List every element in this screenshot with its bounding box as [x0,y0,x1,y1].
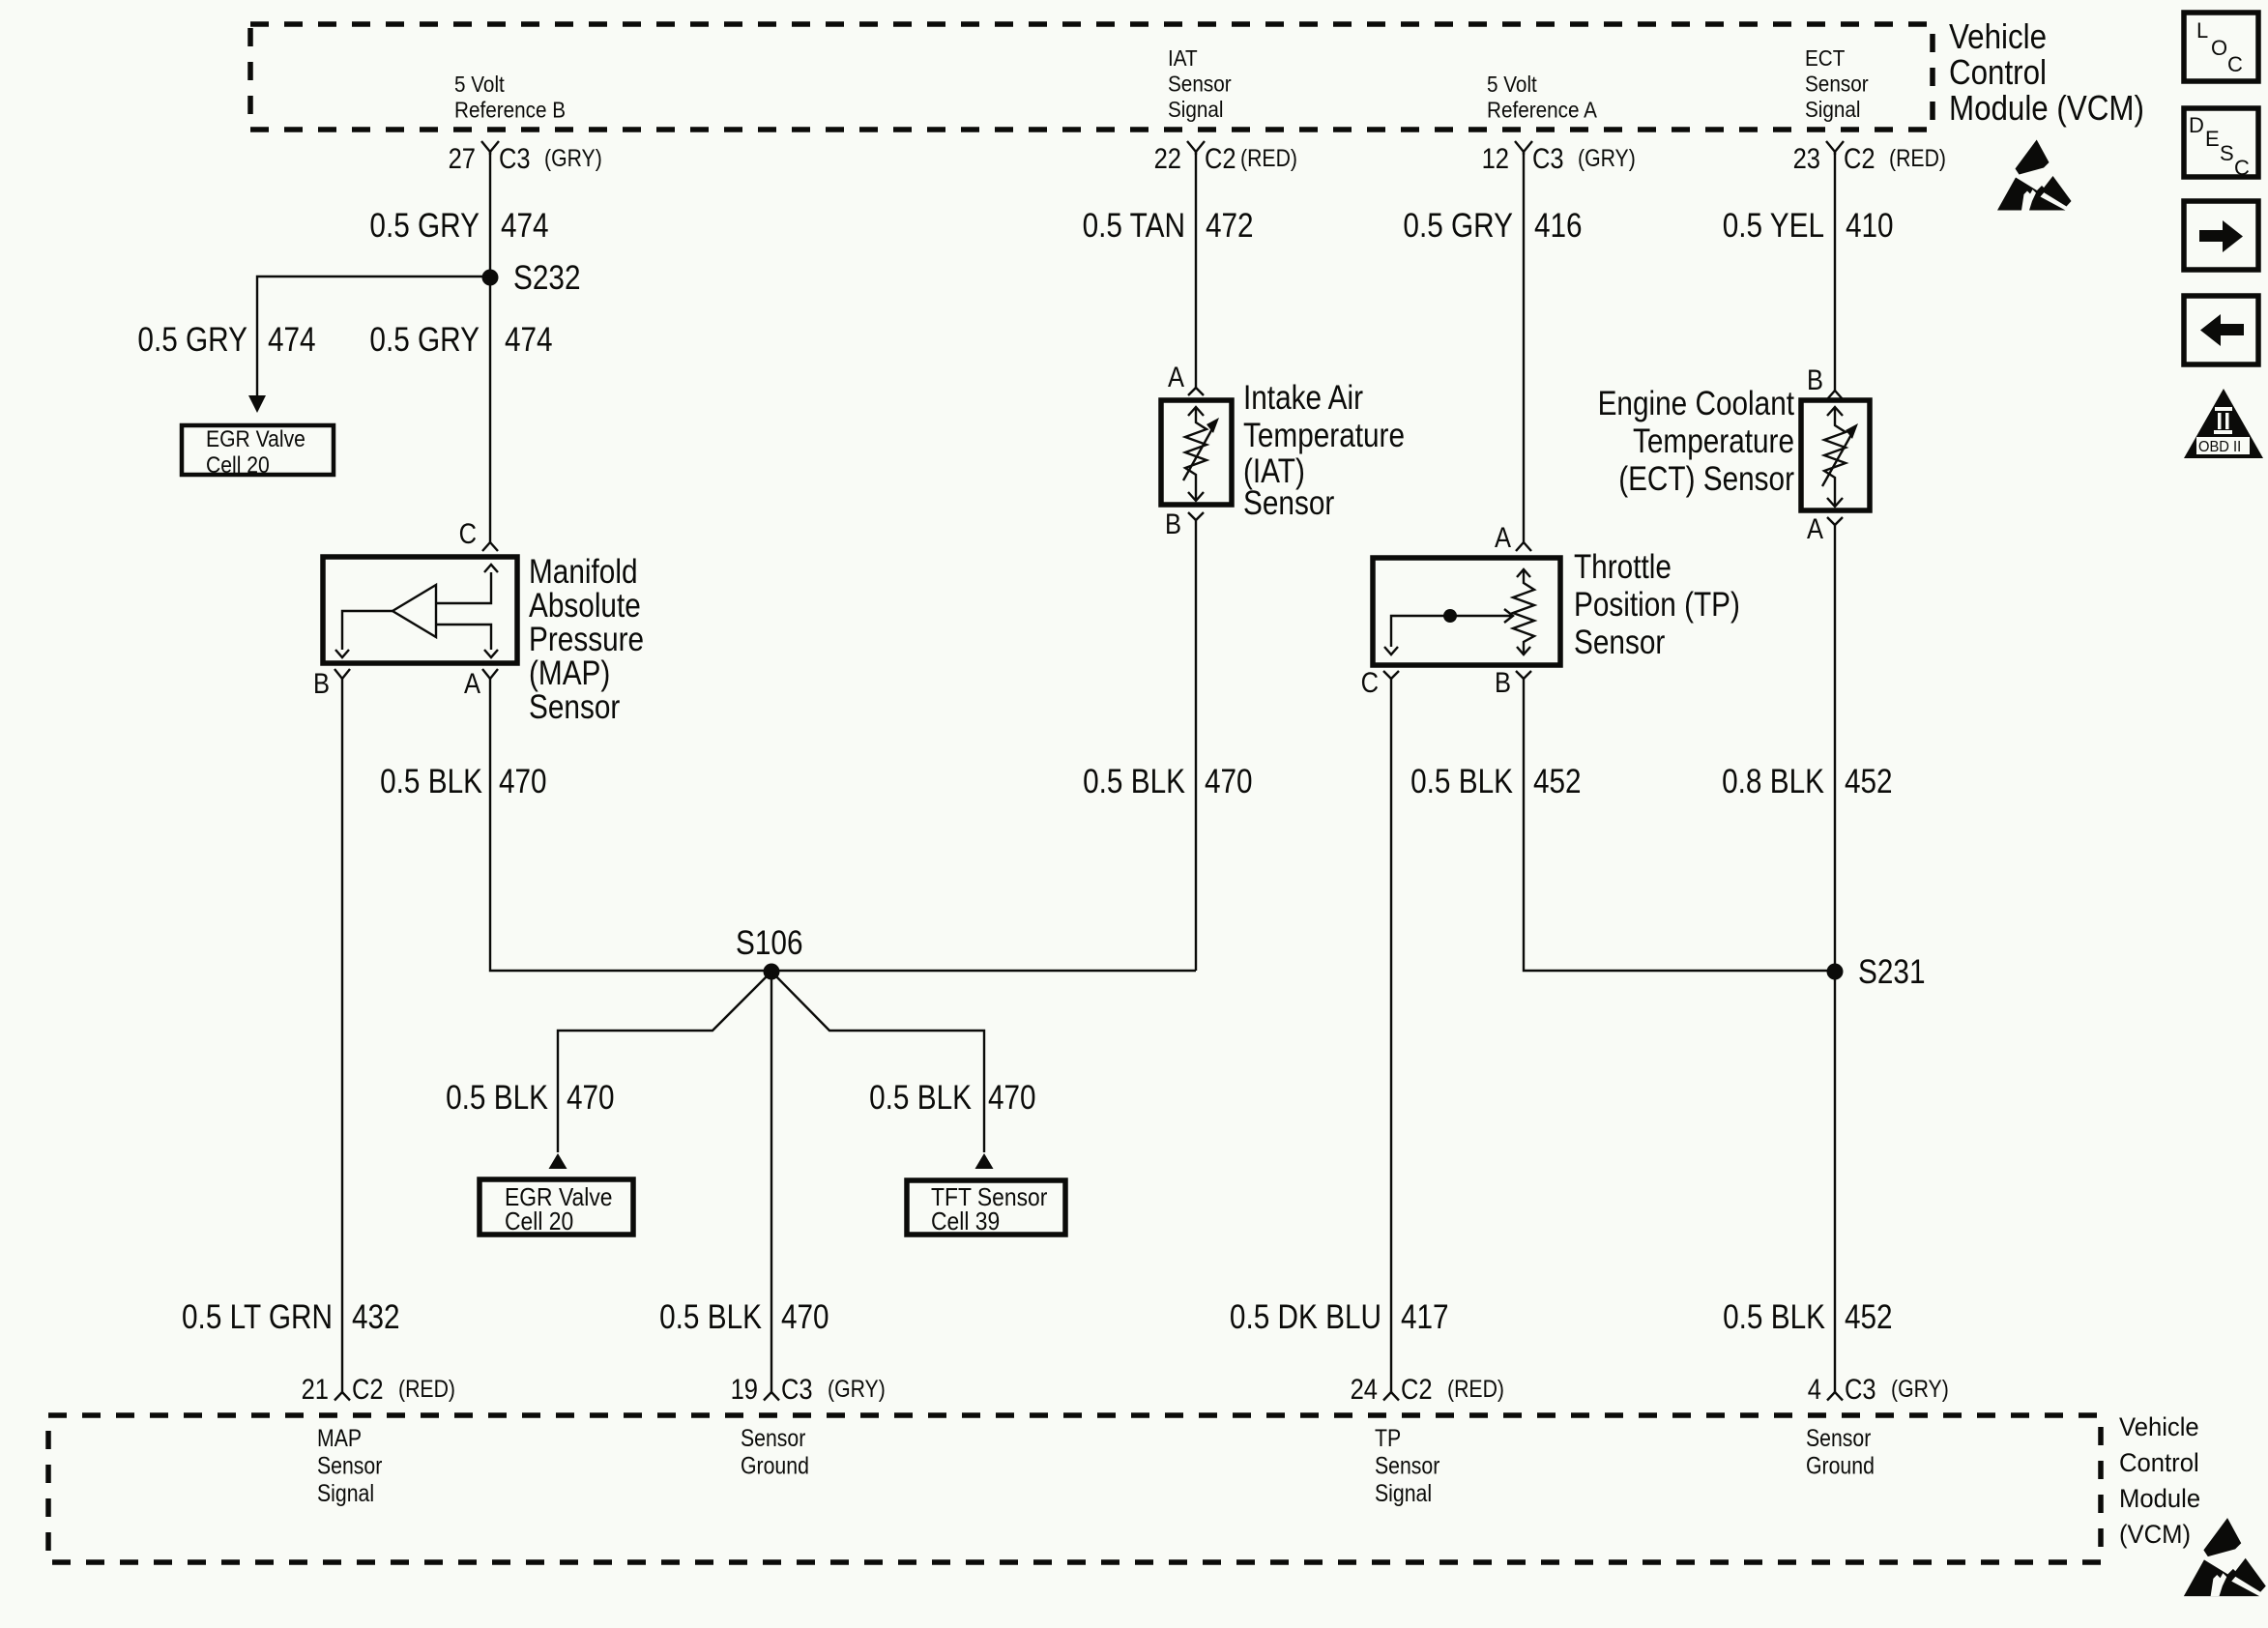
svg-text:5 Volt: 5 Volt [1487,72,1537,97]
arrow to EGR Valve box (lower) [549,1153,567,1169]
svg-text:27: 27 [449,143,476,175]
terminal B of IAT sensor [1165,509,1204,540]
svg-text:C: C [459,518,477,550]
splice S106 [736,924,803,980]
svg-text:416: 416 [1534,207,1583,245]
wire TP B down to S231 [1524,679,1835,971]
svg-text:O: O [2211,36,2227,60]
svg-text:A: A [1807,513,1823,545]
svg-text:Sensor: Sensor [1806,1425,1871,1452]
svg-text:B: B [1807,364,1823,396]
svg-text:432: 432 [352,1298,400,1336]
LOC box icon [2184,13,2258,81]
svg-text:C2: C2 [1844,143,1875,175]
label 0.5 BLK 470 EGR branch [446,1079,615,1117]
svg-text:0.5 BLK: 0.5 BLK [659,1298,762,1336]
TP sensor box [1373,558,1560,665]
svg-text:0.5 LT GRN: 0.5 LT GRN [182,1298,333,1336]
svg-text:Reference A: Reference A [1487,98,1597,123]
svg-text:0.5 DK BLU: 0.5 DK BLU [1230,1298,1381,1336]
svg-text:0.5 GRY: 0.5 GRY [369,207,480,245]
label TP Sensor Signal [1375,1425,1439,1507]
svg-text:Ground: Ground [1806,1453,1875,1480]
OBD II triangle icon [2184,389,2263,458]
wire MAP A to S106 ground bus [490,679,1196,971]
svg-text:C3: C3 [1845,1374,1876,1406]
svg-text:4: 4 [1808,1374,1821,1406]
svg-text:0.5 BLK: 0.5 BLK [869,1079,972,1117]
svg-text:Control: Control [1949,52,2047,92]
pin 4 C3 (GRY) connector [1808,1374,1949,1406]
svg-text:0.8 BLK: 0.8 BLK [1722,763,1824,800]
arrow into EGR Valve box [248,395,266,413]
terminal B of MAP sensor [313,668,350,700]
svg-text:L: L [2196,18,2208,43]
label Intake Air Temperature (IAT) Sensor [1243,379,1405,522]
svg-text:(RED): (RED) [1889,145,1946,172]
label 0.5 BLK 470 TFT branch [869,1079,1036,1117]
svg-text:Engine Coolant: Engine Coolant [1598,385,1795,422]
right arrow box icon [2184,201,2258,270]
svg-text:ECT: ECT [1805,45,1845,71]
wire ECT A down through S231 to pin 4 [1834,525,1836,1392]
svg-text:(RED): (RED) [398,1376,455,1403]
svg-text:470: 470 [499,763,547,800]
svg-text:E: E [2205,127,2220,151]
svg-text:Pressure: Pressure [529,621,644,658]
thermistor symbol inside IAT sensor [1183,407,1219,501]
pin 19 C3 (GRY) connector [731,1374,886,1406]
svg-text:417: 417 [1401,1298,1449,1336]
svg-text:Sensor: Sensor [1574,624,1666,661]
label 0.5 GRY 474 branch left [137,321,315,359]
label 0.5 YEL 410 [1723,207,1894,245]
svg-text:0.5 BLK: 0.5 BLK [1083,763,1185,800]
svg-text:Signal: Signal [1168,97,1224,122]
pin 22 C2 (RED) connector [1154,141,1297,175]
svg-text:Sensor: Sensor [1243,484,1335,522]
label Engine Coolant Temperature (ECT) Sensor [1598,385,1795,498]
wire pin23 down to ECT B [1834,152,1836,391]
svg-text:470: 470 [567,1079,615,1117]
terminal B of TP sensor [1495,667,1531,699]
svg-text:Control: Control [2119,1448,2199,1477]
label 0.5 BLK 470 under MAP [380,763,547,800]
svg-text:0.5 BLK: 0.5 BLK [380,763,482,800]
splice S232 [482,259,581,297]
svg-text:A: A [1495,522,1511,554]
svg-text:Sensor: Sensor [529,688,621,726]
svg-text:452: 452 [1533,763,1582,800]
label Vehicle Control Module (VCM) top [1949,16,2144,128]
svg-text:24: 24 [1351,1374,1378,1406]
svg-text:470: 470 [1205,763,1253,800]
svg-text:Cell 39: Cell 39 [931,1206,1000,1236]
wire branch S232 to EGR valve [257,276,490,395]
svg-text:474: 474 [505,321,553,359]
svg-text:0.5 BLK: 0.5 BLK [446,1079,548,1117]
svg-text:A: A [464,668,480,700]
left arrow box icon [2184,296,2258,364]
wire pin12 down to TP A [1523,152,1525,542]
svg-text:Sensor: Sensor [317,1453,382,1480]
pin 27 C3 (GRY) connector [449,141,602,175]
svg-text:0.5 YEL: 0.5 YEL [1723,207,1824,245]
svg-text:474: 474 [501,207,549,245]
wire TP C down to pin 24 [1390,679,1392,1392]
label 0.5 BLK 470 bottom [659,1298,829,1336]
svg-text:C2: C2 [1205,143,1236,175]
MAP sensor box [323,557,517,663]
svg-text:C: C [1361,667,1379,699]
svg-text:Cell 20: Cell 20 [206,452,270,479]
EGR Valve Cell 20 box (lower) [480,1179,633,1236]
svg-text:Signal: Signal [1805,97,1861,122]
TFT Sensor Cell 39 box [907,1180,1065,1236]
svg-text:472: 472 [1206,207,1254,245]
svg-text:0.5 BLK: 0.5 BLK [1410,763,1513,800]
pin 24 C2 (RED) connector [1351,1374,1504,1406]
label Sensor Ground right [1806,1425,1875,1480]
svg-text:(RED): (RED) [1447,1376,1504,1403]
svg-text:S: S [2220,141,2234,165]
svg-text:5 Volt: 5 Volt [454,72,505,97]
wire 474 pin27 to S232 to MAP C [489,152,491,542]
IAT sensor box [1161,400,1232,505]
svg-text:A: A [1168,362,1184,393]
svg-text:D: D [2189,113,2204,137]
svg-text:Temperature: Temperature [1243,417,1405,454]
svg-text:OBD II: OBD II [2198,439,2241,455]
svg-text:Sensor: Sensor [1375,1453,1439,1480]
svg-text:22: 22 [1154,143,1181,175]
svg-text:(ECT) Sensor: (ECT) Sensor [1618,460,1794,498]
wire MAP B to pin 21 [341,679,343,1392]
label 0.5 BLK 470 under IAT [1083,763,1253,800]
wire IAT B down to S106 bus [1195,520,1197,971]
svg-text:EGR Valve: EGR Valve [206,426,305,452]
svg-text:Cell 20: Cell 20 [505,1206,573,1236]
label 0.8 BLK 452 under ECT [1722,763,1893,800]
label Sensor Ground left [741,1425,809,1480]
label 0.5 TAN 472 [1083,207,1254,245]
svg-text:S232: S232 [513,259,581,297]
VCM top dashed box [250,24,1933,130]
VCM bottom dashed box [48,1415,2101,1562]
label IAT Sensor Signal [1168,45,1232,122]
svg-text:0.5 GRY: 0.5 GRY [369,321,480,359]
svg-text:Reference B: Reference B [454,98,566,123]
svg-text:474: 474 [268,321,316,359]
svg-text:Temperature: Temperature [1633,422,1794,460]
svg-text:Module: Module [2119,1484,2200,1513]
svg-text:Intake Air: Intake Air [1243,379,1363,417]
svg-text:Absolute: Absolute [529,587,641,625]
label MAP Sensor Signal [317,1425,382,1507]
svg-text:Module (VCM): Module (VCM) [1949,88,2144,128]
label 0.5 DK BLU 417 [1230,1298,1449,1336]
terminal C of MAP sensor [459,518,498,551]
label 5 Volt Reference B [454,72,566,123]
svg-text:TP: TP [1375,1425,1401,1452]
svg-text:C: C [2234,156,2250,180]
svg-text:(VCM): (VCM) [2119,1520,2191,1549]
terminal B of ECT sensor [1807,364,1843,399]
svg-text:0.5 TAN: 0.5 TAN [1083,207,1185,245]
svg-text:Ground: Ground [741,1453,809,1480]
svg-text:C3: C3 [499,143,531,175]
thermistor symbol inside ECT sensor [1822,407,1858,507]
svg-text:(MAP): (MAP) [529,654,610,692]
svg-text:0.5 BLK: 0.5 BLK [1723,1298,1825,1336]
potentiometer symbol inside TP sensor [1384,569,1534,654]
EGR Valve Cell 20 box (upper) [182,425,334,479]
wire S106 down to pin 19 [771,972,772,1392]
label 0.5 BLK 452 bottom [1723,1298,1893,1336]
splice S231 [1827,953,1926,991]
label 0.5 LT GRN 432 [182,1298,400,1336]
svg-text:0.5 GRY: 0.5 GRY [137,321,247,359]
svg-text:Vehicle: Vehicle [2119,1412,2199,1441]
svg-text:12: 12 [1482,143,1509,175]
arrow to TFT Sensor box [975,1153,994,1169]
svg-text:(RED): (RED) [1240,145,1297,172]
svg-text:(GRY): (GRY) [1578,145,1636,172]
svg-text:Signal: Signal [1375,1480,1432,1507]
op-amp symbol inside MAP sensor [335,565,498,657]
svg-text:410: 410 [1846,207,1894,245]
svg-text:452: 452 [1845,763,1893,800]
svg-text:Manifold: Manifold [529,553,638,591]
label 0.5 GRY 474 row1 [369,207,548,245]
svg-text:C2: C2 [1401,1374,1433,1406]
svg-text:S231: S231 [1858,953,1926,991]
svg-text:B: B [1495,667,1511,699]
label Manifold Absolute Pressure (MAP) Sensor [529,553,644,726]
svg-text:Signal: Signal [317,1480,374,1507]
svg-text:MAP: MAP [317,1425,362,1452]
svg-text:0.5 GRY: 0.5 GRY [1403,207,1513,245]
svg-text:Sensor: Sensor [1168,72,1232,97]
svg-text:470: 470 [988,1079,1036,1117]
svg-text:452: 452 [1845,1298,1893,1336]
svg-text:19: 19 [731,1374,758,1406]
svg-text:B: B [1165,509,1181,540]
ESD symbol top (below VCM label) [1997,140,2072,211]
svg-text:C: C [2227,52,2243,76]
svg-text:(GRY): (GRY) [544,145,602,172]
label ECT Sensor Signal [1805,45,1869,122]
label 0.5 GRY 474 branch right [369,321,552,359]
svg-text:C2: C2 [352,1374,384,1406]
wire S106 to EGR valve (lower) [558,972,771,1152]
label 0.5 GRY 416 [1403,207,1582,245]
svg-text:(GRY): (GRY) [1891,1376,1949,1403]
ECT sensor box [1801,400,1870,510]
terminal C of TP sensor [1361,667,1399,699]
terminal A of TP sensor [1495,522,1531,554]
svg-text:C3: C3 [781,1374,813,1406]
wire S106 to TFT sensor [771,972,984,1152]
terminal A of ECT sensor [1807,513,1843,545]
pin 23 C2 (RED) connector [1793,141,1946,175]
terminal A of MAP sensor [464,668,498,700]
svg-text:Sensor: Sensor [1805,72,1869,97]
label Throttle Position (TP) Sensor [1574,548,1740,661]
DESC box icon [2184,108,2258,180]
svg-text:Position (TP): Position (TP) [1574,586,1740,624]
svg-text:B: B [313,668,330,700]
label 0.5 BLK 452 under TP [1410,763,1582,800]
svg-text:(GRY): (GRY) [828,1376,886,1403]
svg-text:S106: S106 [736,924,803,962]
ESD symbol bottom right [2184,1518,2266,1596]
svg-text:Vehicle: Vehicle [1949,16,2047,56]
svg-text:C3: C3 [1532,143,1564,175]
svg-text:21: 21 [302,1374,329,1406]
svg-text:IAT: IAT [1168,45,1198,71]
pin 21 C2 (RED) connector [302,1374,455,1406]
label 5 Volt Reference A [1487,72,1597,123]
pin 12 C3 (GRY) connector [1482,141,1636,175]
label Vehicle Control Module (VCM) bottom [2119,1412,2200,1549]
svg-text:Throttle: Throttle [1574,548,1672,586]
svg-text:23: 23 [1793,143,1820,175]
wire IAT pin22 down to IAT A [1195,152,1197,388]
svg-text:470: 470 [781,1298,829,1336]
terminal A of IAT sensor [1168,362,1204,395]
svg-text:Sensor: Sensor [741,1425,805,1452]
